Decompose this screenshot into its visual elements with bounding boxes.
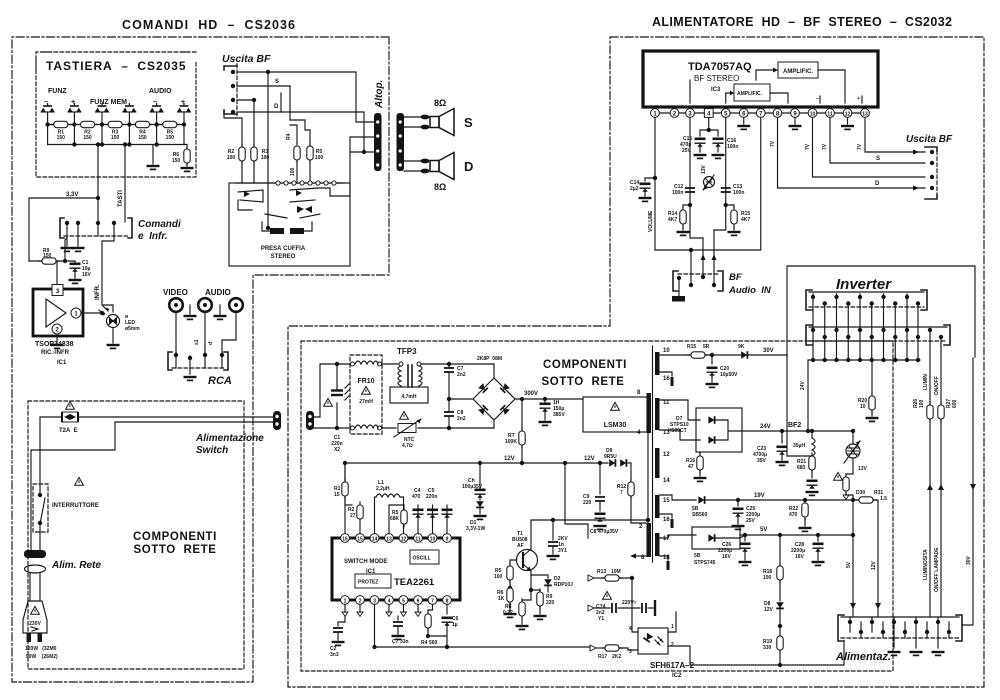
svg-text:TDA7057AQ: TDA7057AQ: [688, 61, 752, 73]
svg-text:2: 2: [671, 642, 674, 648]
amplifier block B: [734, 84, 770, 101]
svg-text:2K8P 08M: 2K8P 08M: [477, 356, 502, 362]
resistor R4 150: [133, 121, 153, 127]
wire inverter return to BF2: [787, 357, 812, 456]
svg-text:IC2: IC2: [672, 673, 682, 679]
svg-text:SFH617A–2: SFH617A–2: [650, 661, 695, 670]
mains wire pair: [31, 417, 276, 551]
capacitor C1 10u 16V: [74, 261, 76, 263]
resistor R1 15: [345, 463, 352, 505]
doubler capacitor C7 2n2: [448, 364, 450, 428]
svg-text:e Infr.: e Infr.: [138, 231, 167, 242]
jack contact rail: [236, 182, 340, 184]
oscillator block: [410, 550, 439, 564]
resistor R5 150: [160, 121, 180, 127]
svg-text:10: 10: [430, 537, 436, 543]
svg-text:ON/OFF: ON/OFF: [934, 376, 940, 395]
keyboard box TASTIERA CS2035: [36, 52, 196, 177]
svg-text:INFR.: INFR.: [95, 284, 101, 300]
svg-text:150: 150: [138, 135, 147, 141]
capacitor C28 2200u 16V: [817, 535, 819, 541]
svg-text:13: 13: [862, 112, 868, 118]
svg-text:AUDIO: AUDIO: [205, 288, 231, 297]
fuse T2A E: [62, 412, 78, 422]
svg-text:100: 100: [261, 155, 270, 161]
svg-text:7: 7: [620, 490, 623, 496]
svg-text:S: S: [464, 115, 473, 130]
wire infr column: [102, 236, 114, 312]
svg-text:5: 5: [402, 599, 405, 605]
svg-text:D: D: [274, 104, 279, 110]
line filter FR10 27mH: [350, 355, 382, 434]
svg-text:4,7mH: 4,7mH: [401, 394, 416, 400]
capacitor C13 100n: [721, 188, 731, 192]
svg-text:4K7: 4K7: [668, 217, 677, 223]
svg-text:7V: 7V: [770, 140, 776, 147]
wires altop to speakers: [404, 117, 421, 171]
svg-text:385V: 385V: [553, 412, 565, 418]
resistor R9 150: [29, 260, 75, 262]
svg-text:9K: 9K: [738, 344, 745, 350]
svg-text:16: 16: [342, 537, 348, 543]
capacitor C16 100n: [713, 139, 724, 147]
svg-text:90W (26M2): 90W (26M2): [26, 654, 58, 660]
svg-text:Comandi: Comandi: [138, 219, 181, 230]
svg-text:11: 11: [663, 400, 670, 406]
connector bar left: [374, 113, 382, 171]
svg-text:1: 1: [671, 624, 674, 630]
svg-text:IC1: IC1: [57, 360, 67, 366]
svg-text:X2: X2: [334, 447, 340, 453]
resistor R4 100: [294, 143, 300, 163]
row2 pins: [813, 330, 930, 420]
wire to TSOP pin3: [56, 261, 58, 284]
svg-text:5B: 5B: [694, 553, 701, 559]
svg-text:30V: 30V: [966, 555, 972, 565]
svg-text:13V: 13V: [701, 164, 707, 174]
bridge rectifier: [473, 378, 515, 420]
svg-text:IC3: IC3: [711, 87, 721, 93]
svg-text:15: 15: [334, 492, 340, 498]
pin 7: [756, 109, 765, 118]
speaker S 8ohm: [420, 109, 454, 136]
grounds under pins 6 9 12: [744, 117, 848, 124]
wires from jacks to RCA connector: [176, 312, 236, 352]
svg-text:12: 12: [845, 112, 851, 118]
svg-text:1.5: 1.5: [880, 496, 887, 502]
24V feed wire: [807, 360, 809, 431]
svg-text:24V: 24V: [800, 380, 806, 390]
ground below TSOP: [56, 336, 58, 343]
svg-text:3,3V-1W: 3,3V-1W: [466, 526, 485, 532]
connector RCA: [168, 352, 172, 370]
svg-text:SB560: SB560: [692, 512, 708, 518]
resistor R13 10M: [588, 575, 594, 581]
svg-text:Audio IN: Audio IN: [728, 285, 772, 296]
svg-text:C8: C8: [590, 529, 597, 535]
svg-text:13V: 13V: [858, 466, 868, 472]
wire S to altop: [268, 72, 374, 122]
svg-text:12: 12: [663, 452, 670, 458]
resistor R2 100: [239, 144, 245, 164]
pin 4: [704, 109, 713, 118]
IC TSOP34838 IC1: [33, 289, 83, 336]
capacitor C23 4700u 35V: [781, 431, 783, 443]
box COMPONENTI SOTTO RETE right: [301, 341, 893, 671]
pin 3: [686, 109, 695, 118]
interruttore: [75, 477, 84, 485]
pin 5: [721, 109, 730, 118]
amplifier block A: [778, 62, 818, 78]
resistor R12 7: [628, 479, 634, 499]
svg-text:TSOP34838: TSOP34838: [35, 341, 74, 348]
svg-text:27: 27: [350, 513, 356, 519]
capacitor C26 2200u 16V: [744, 535, 746, 541]
switch SW2: [67, 103, 81, 112]
svg-text:D: D: [875, 181, 880, 187]
pin3 wire to bus: [375, 604, 591, 647]
pin 13: [861, 109, 870, 118]
svg-text:−: −: [816, 96, 819, 102]
svg-text:330: 330: [763, 645, 772, 651]
boundary of COMANDI HD CS2036 region: [12, 37, 389, 682]
inverter bus: [808, 359, 920, 361]
inductor L1 2,2uH: [375, 497, 377, 534]
svg-text:680: 680: [797, 465, 806, 471]
pin18 stub: [660, 556, 669, 560]
damper box 4,7mH: [390, 387, 428, 403]
speaker D 8ohm: [420, 153, 454, 180]
keyboard column wires: [48, 112, 184, 145]
12V rail: [345, 463, 608, 534]
svg-text:24V: 24V: [760, 424, 771, 430]
base resistors R5b R6: [510, 560, 517, 566]
svg-text:16V: 16V: [795, 554, 805, 560]
inverter box: [787, 266, 975, 357]
svg-text:68K: 68K: [390, 516, 400, 522]
row1 pins: [813, 294, 907, 330]
svg-text:1: 1: [344, 599, 347, 605]
pin 16 stub: [660, 372, 673, 376]
svg-text:RDP10J: RDP10J: [554, 582, 573, 588]
svg-text:100n: 100n: [727, 144, 738, 150]
svg-text:150: 150: [111, 135, 120, 141]
resistor R16b 9R: [741, 351, 747, 359]
pin5 input chain: [714, 117, 726, 230]
svg-text:220n: 220n: [426, 494, 437, 500]
resistor R5 68K: [389, 505, 404, 534]
long wires down to jack: [224, 72, 268, 228]
resistor R9 220: [531, 590, 540, 592]
jack plug contacts: [297, 206, 312, 213]
5V rectifier STPS745: [660, 535, 697, 538]
svg-text:AUDIO: AUDIO: [149, 88, 172, 95]
svg-text:Uscita BF: Uscita BF: [222, 53, 271, 65]
5V vertical: [852, 500, 854, 617]
svg-text:12V: 12V: [584, 456, 595, 462]
resistor R6 150: [186, 145, 188, 167]
pin 8: [773, 109, 782, 118]
svg-text:230V: 230V: [29, 621, 41, 627]
svg-text:1µ: 1µ: [452, 622, 458, 628]
svg-text:100: 100: [763, 575, 772, 581]
resistor R3 150: [105, 121, 125, 127]
svg-text:FR10: FR10: [357, 378, 374, 385]
svg-text:100K: 100K: [505, 439, 517, 445]
resistor R15b: [688, 352, 708, 358]
svg-text:LSM30: LSM30: [604, 422, 627, 429]
svg-text:TASTIERA – CS2035: TASTIERA – CS2035: [46, 59, 186, 73]
svg-text:S: S: [876, 156, 880, 162]
connector BF Audio IN: [673, 271, 678, 291]
jack bottom contacts: [270, 228, 284, 234]
svg-text:220: 220: [546, 600, 555, 606]
long verticals to bottom connector: [930, 420, 941, 617]
svg-text:AMPLIFIC.: AMPLIFIC.: [783, 69, 813, 75]
capacitor C5 220n: [432, 505, 434, 534]
wire doubler midpoint to bridge: [449, 398, 473, 400]
svg-text:47: 47: [688, 464, 694, 470]
svg-text:35V: 35V: [757, 458, 767, 464]
capacitor C4 470: [417, 505, 419, 534]
resistor row wire: [48, 124, 184, 126]
svg-text:COMANDI HD – CS2036: COMANDI HD – CS2036: [122, 18, 296, 32]
svg-text:12V: 12V: [871, 560, 877, 570]
svg-text:8Ω: 8Ω: [434, 98, 446, 108]
capacitor C11 150u 385V: [544, 399, 546, 402]
svg-text:10M: 10M: [611, 569, 621, 575]
svg-text:150: 150: [166, 135, 175, 141]
box COMPONENTI SOTTO RETE left: [28, 401, 244, 669]
svg-text:SWITCH MODE: SWITCH MODE: [344, 559, 387, 565]
secondary winding 15-16: [655, 495, 660, 518]
svg-text:C7: C7: [392, 639, 399, 645]
emitter chain: [522, 571, 531, 602]
resistor R1 150: [51, 121, 71, 127]
lamp 13V: [852, 431, 854, 443]
svg-text:SOTTO RETE: SOTTO RETE: [541, 376, 624, 388]
switch SW1: [41, 103, 55, 112]
svg-text:COMPONENTI: COMPONENTI: [543, 359, 627, 371]
svg-text:100: 100: [315, 155, 324, 161]
capacitor C7b 33n: [397, 616, 399, 620]
svg-text:Uscita BF: Uscita BF: [906, 134, 953, 145]
svg-text:4K7: 4K7: [741, 217, 750, 223]
svg-text:14: 14: [372, 537, 378, 543]
wire TASTI: [124, 145, 126, 223]
svg-text:7V: 7V: [805, 143, 811, 150]
svg-text:3n3: 3n3: [330, 652, 339, 658]
svg-text:27mH: 27mH: [359, 399, 373, 405]
svg-text:100: 100: [494, 574, 503, 580]
svg-text:5V: 5V: [760, 527, 767, 533]
capacitor C25 2200u 25V: [737, 500, 739, 506]
svg-text:R4: R4: [421, 640, 428, 646]
connector Uscita BF left: [224, 66, 237, 70]
svg-text:4: 4: [388, 599, 391, 605]
headphone jack switch left: [238, 190, 263, 202]
svg-text:PRESA CUFFIA: PRESA CUFFIA: [261, 246, 306, 252]
pin 10: [808, 109, 817, 118]
svg-text:600: 600: [952, 399, 958, 408]
300V rail: [515, 398, 583, 400]
capacitor C6 1u: [446, 604, 448, 614]
resistor R18 100: [777, 563, 783, 583]
svg-text:100: 100: [919, 399, 925, 408]
headphone jack switch right: [290, 188, 318, 202]
svg-text:8Ω: 8Ω: [434, 182, 446, 192]
svg-text:SOTTO RETE: SOTTO RETE: [133, 544, 216, 556]
switch SW5: [150, 103, 164, 112]
svg-text:TEA2261: TEA2261: [394, 577, 435, 588]
svg-text:INTERRUTTORE: INTERRUTTORE: [52, 503, 99, 509]
svg-text:10: 10: [810, 112, 816, 118]
svg-text:100: 100: [290, 167, 296, 176]
internal wires of TDA: [690, 70, 862, 103]
ground below R6: [181, 168, 194, 171]
resistor R19 330: [777, 633, 783, 653]
RCA jack audio 2: [229, 298, 243, 312]
resistor R21 680: [809, 453, 815, 473]
svg-text:Altop.: Altop.: [374, 80, 385, 109]
primary winding 2-8: [647, 523, 652, 557]
svg-text:2,2µH: 2,2µH: [376, 486, 390, 492]
svg-text:FUNZ: FUNZ: [48, 88, 67, 95]
resistor R23: [846, 458, 853, 477]
svg-text:5V: 5V: [846, 561, 852, 568]
connector Uscita BF right: [925, 147, 937, 151]
svg-text:BF2: BF2: [788, 422, 801, 429]
svg-text:35µH: 35µH: [793, 443, 805, 449]
svg-text:16V: 16V: [82, 272, 92, 278]
svg-text:D: D: [464, 159, 473, 174]
svg-text:TFP3: TFP3: [397, 347, 417, 356]
main transformer core: [652, 346, 654, 562]
svg-text:8: 8: [446, 599, 449, 605]
svg-text:10µ50V: 10µ50V: [720, 372, 738, 378]
resistor R27 600: [938, 402, 944, 422]
connecting line through pins: [659, 112, 860, 114]
svg-text:2µ2: 2µ2: [630, 186, 639, 192]
19V rectifier SB560: [660, 495, 697, 500]
opto output wires: [668, 612, 844, 665]
svg-text:16: 16: [663, 517, 670, 523]
svg-text:R4: R4: [286, 133, 292, 140]
svg-text:9R5U: 9R5U: [604, 454, 617, 460]
pin 11: [826, 109, 835, 118]
svg-text:OSCILL: OSCILL: [413, 556, 431, 562]
inverter connector row 1: [806, 290, 812, 310]
svg-text:9: 9: [446, 537, 449, 543]
mains plug: [24, 550, 46, 558]
resistor R22 470: [804, 500, 806, 503]
trimmer potentiometer: [704, 177, 715, 188]
connector Comandi e Infr: [60, 218, 64, 238]
IC TEA2261 IC1 block: [332, 538, 460, 600]
svg-text:R13: R13: [597, 569, 606, 575]
resistor RT 100K: [521, 399, 523, 462]
svg-text:13: 13: [386, 537, 392, 543]
R18 D8 R19 column: [779, 535, 781, 566]
svg-text:RCA: RCA: [208, 375, 232, 387]
svg-text:220: 220: [583, 500, 592, 506]
capacitor C14 2u2: [645, 178, 655, 181]
svg-text:s1: s1: [194, 339, 200, 345]
svg-text:Alimentaz.: Alimentaz.: [835, 651, 891, 663]
svg-text:150: 150: [172, 158, 181, 164]
svg-text:33n: 33n: [400, 639, 409, 645]
svg-text:RIC.-INFR: RIC.-INFR: [41, 350, 70, 356]
svg-text:3: 3: [373, 599, 376, 605]
pin 1: [651, 109, 660, 118]
svg-text:10: 10: [860, 404, 866, 410]
connector grounds: [888, 652, 901, 655]
secondary winding 11-13: [655, 398, 660, 430]
svg-text:ALIMENTATORE HD – BF STERE: ALIMENTATORE HD – BF STEREO – CS2032: [652, 15, 953, 29]
capacitor C1 220n X2: [336, 364, 338, 428]
ground pins of connector: [67, 236, 78, 246]
svg-text:Y1: Y1: [598, 616, 604, 622]
resistor R5 100: [307, 143, 313, 163]
svg-text:LUMIN: LUMIN: [923, 374, 929, 390]
svg-text:D30: D30: [856, 490, 865, 496]
svg-text:COMPONENTI: COMPONENTI: [133, 531, 217, 543]
resistor R16 47: [699, 452, 701, 456]
secondary winding 12-14: [655, 448, 660, 478]
resistor R8 0.22: [519, 599, 525, 619]
svg-text:150: 150: [83, 135, 92, 141]
svg-text:100: 100: [227, 155, 236, 161]
svg-text:10: 10: [663, 348, 670, 354]
svg-text:2n2: 2n2: [457, 416, 466, 422]
svg-text:0.22: 0.22: [503, 610, 513, 616]
inverter connector row 2: [806, 325, 812, 345]
svg-text:470: 470: [412, 494, 421, 500]
svg-text:11: 11: [415, 537, 421, 543]
svg-text:150: 150: [57, 135, 66, 141]
svg-text:17: 17: [663, 536, 670, 542]
resistor R2 150: [78, 121, 98, 127]
svg-text:7: 7: [431, 599, 434, 605]
doubler capacitor C8 2n2: [444, 412, 454, 416]
svg-text:STPS745: STPS745: [694, 560, 716, 566]
svg-text:560: 560: [429, 640, 438, 646]
resistor R14 4K7: [683, 205, 690, 208]
svg-text:3,3V: 3,3V: [66, 192, 78, 198]
svg-text:7V: 7V: [857, 143, 863, 150]
connector mains in right half: [306, 411, 314, 430]
svg-text:Switch: Switch: [196, 445, 228, 456]
svg-text:AF: AF: [517, 543, 524, 549]
optocoupler SFH617A-2 IC2: [638, 628, 668, 654]
svg-text:100n: 100n: [733, 190, 744, 196]
ground stubs between jacks: [190, 305, 220, 314]
RCA jack audio 1: [198, 298, 212, 312]
pin 2: [670, 109, 679, 118]
pin16b stub: [660, 514, 673, 518]
svg-text:Alimentazione: Alimentazione: [195, 433, 264, 444]
connector pins: [850, 617, 938, 648]
svg-text:ON/OFF LAMPADE: ON/OFF LAMPADE: [934, 547, 940, 592]
switch SW3: [95, 103, 109, 112]
snubber 2KV 1n 3Y1: [552, 520, 554, 540]
choke LSM30: [583, 397, 647, 432]
svg-text:15: 15: [663, 498, 670, 504]
collector wire to primary: [531, 433, 648, 549]
svg-text:220V≈: 220V≈: [622, 600, 637, 606]
capacitor C2 3n3: [338, 616, 345, 626]
junction dots keyboard: [45, 122, 49, 126]
